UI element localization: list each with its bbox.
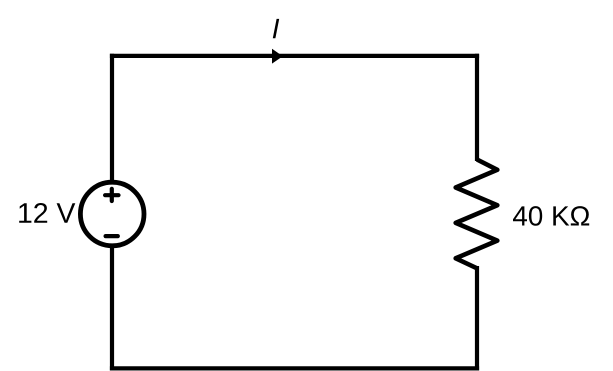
voltage source plus sign bbox=[105, 189, 118, 201]
current arrow on top wire bbox=[272, 49, 283, 64]
wire bottom rail bbox=[110, 366, 479, 370]
wire left bottom (source to bottom rail) bbox=[110, 245, 114, 371]
voltage source value label 12 V bbox=[19, 203, 75, 223]
current label I bbox=[273, 19, 279, 38]
wire right top (top rail to resistor) bbox=[475, 54, 479, 161]
wire right bottom (resistor to bottom rail) bbox=[475, 266, 479, 371]
resistor value label 40 KOhm bbox=[513, 206, 589, 226]
voltage source minus sign bbox=[106, 234, 118, 238]
wire left top (source to top rail) bbox=[110, 54, 114, 184]
wire top rail bbox=[110, 54, 479, 58]
resistor R1 zigzag bbox=[456, 160, 498, 269]
voltage source V1 circle bbox=[80, 182, 144, 246]
